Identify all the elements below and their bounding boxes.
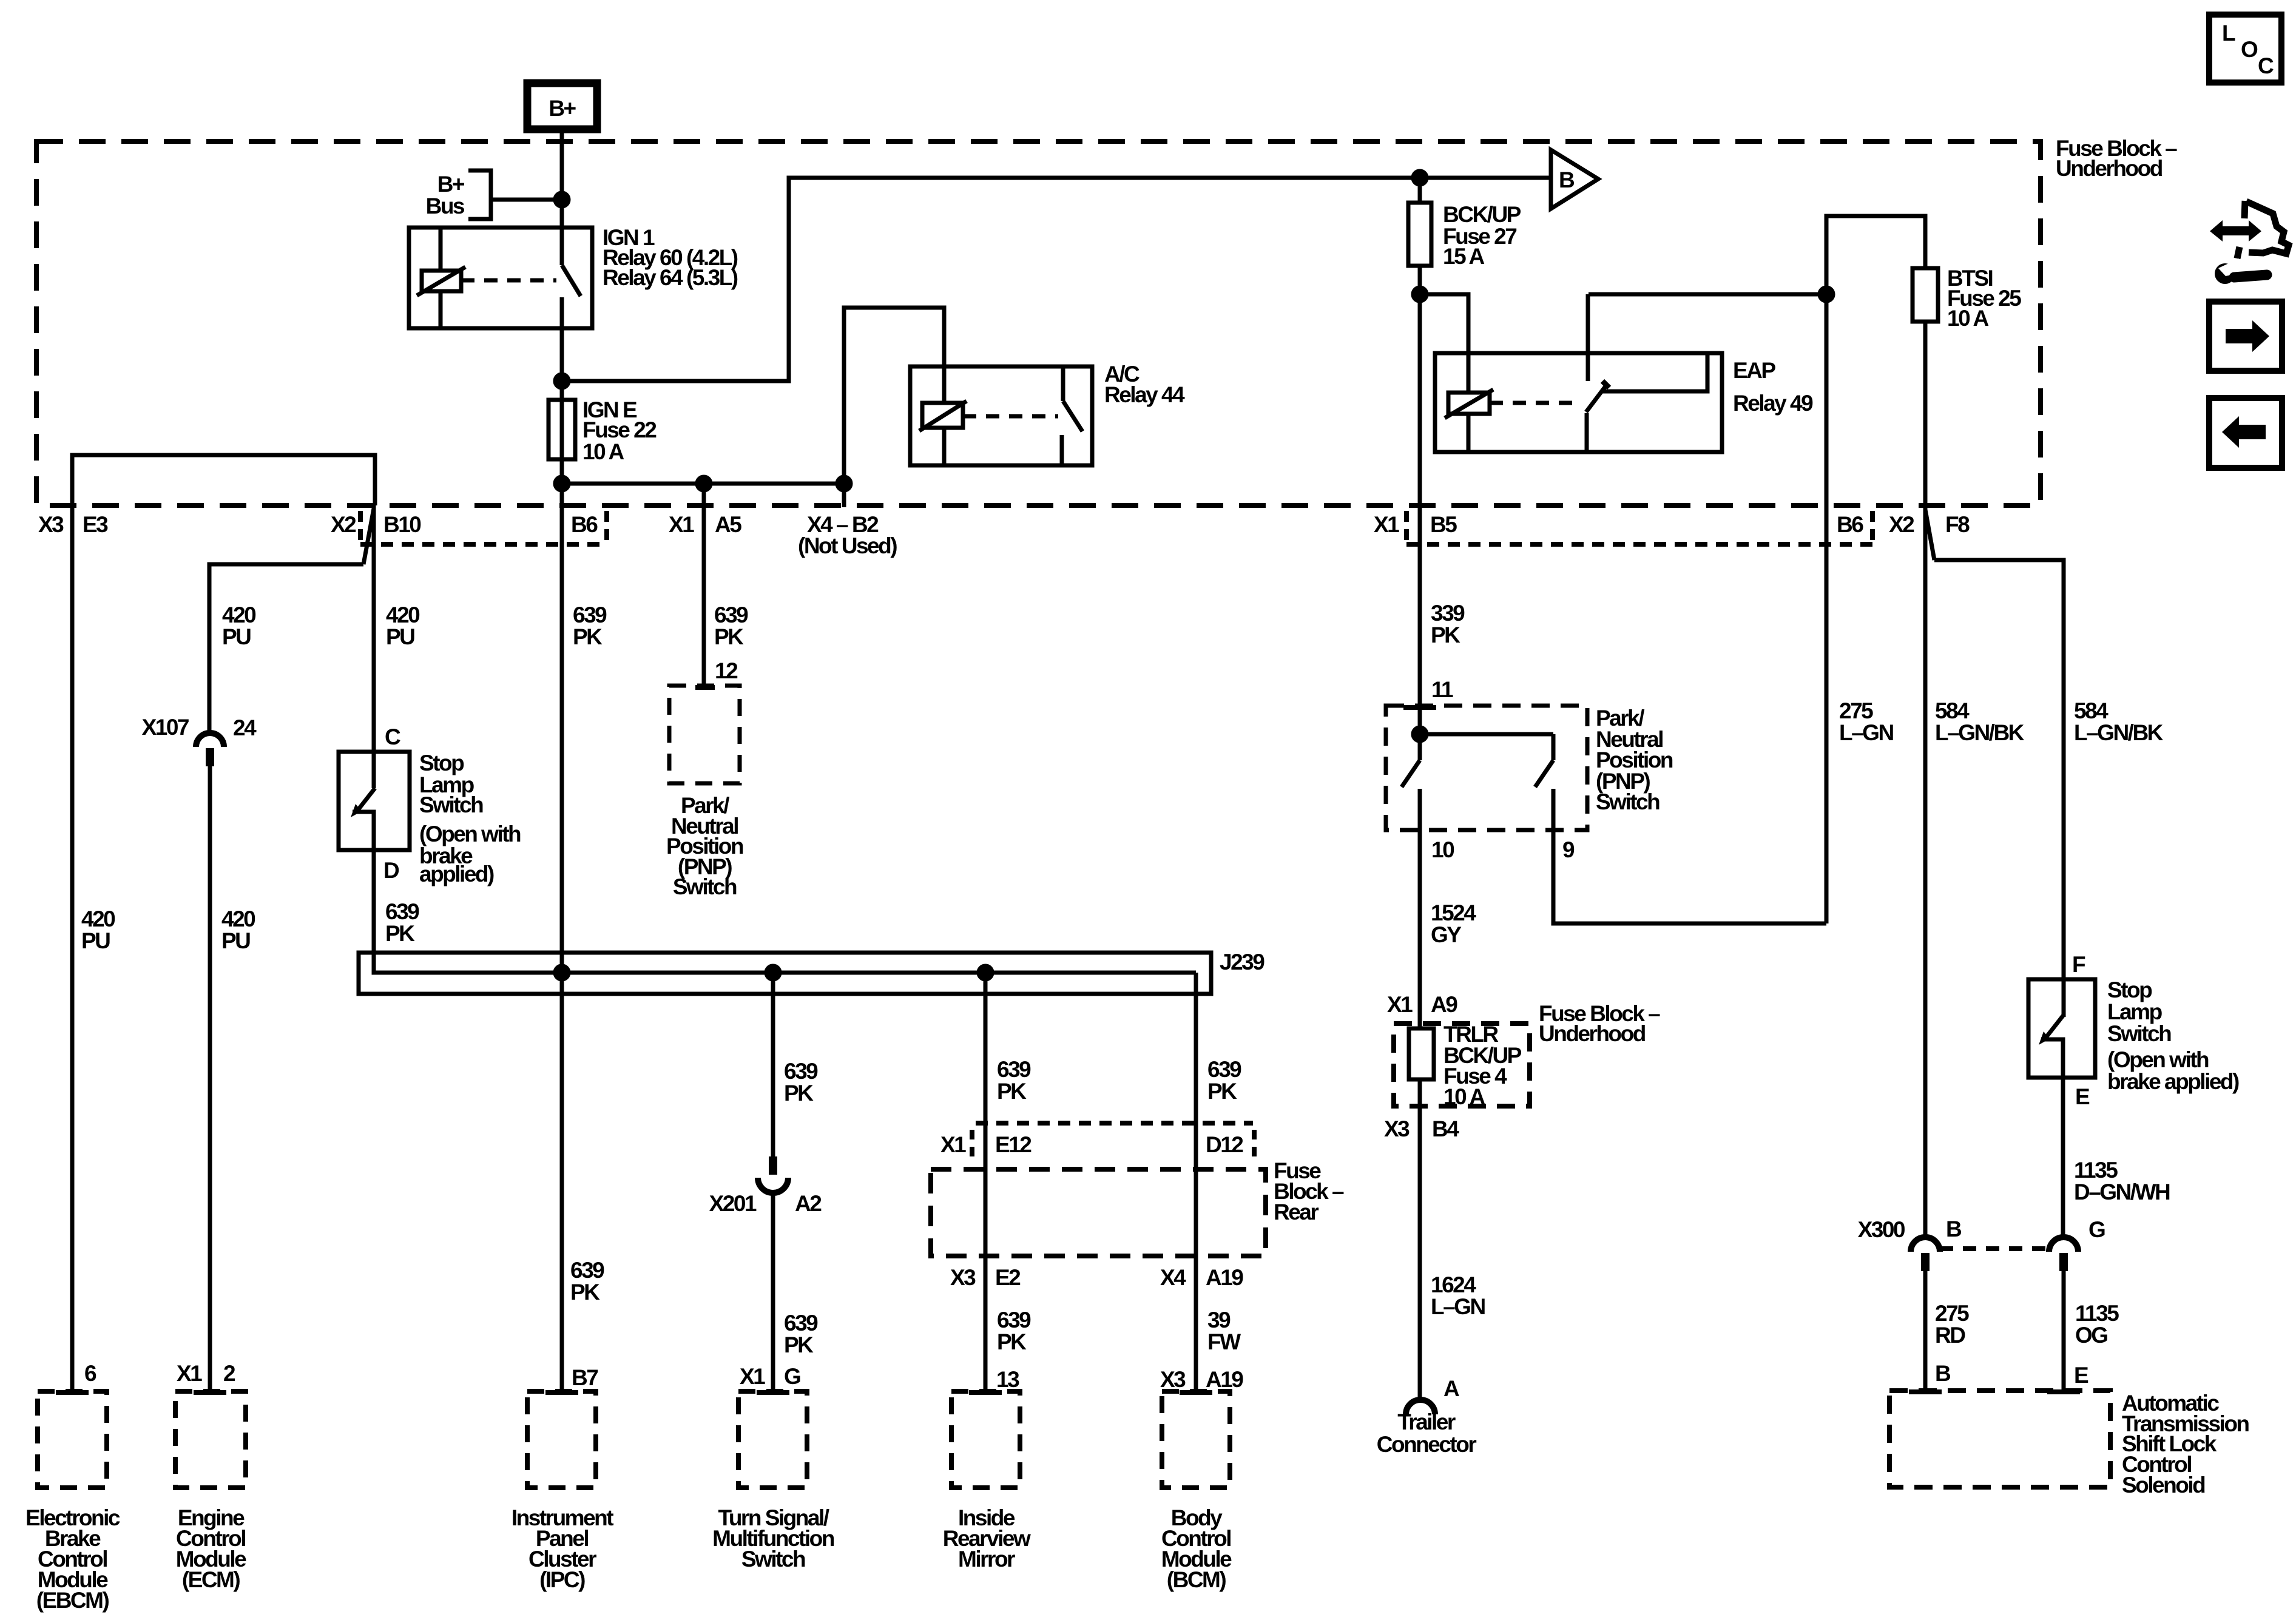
turn signal entry tick pin G xyxy=(757,1390,789,1395)
svg-text:PK: PK xyxy=(570,1280,600,1305)
svg-text:1624: 1624 xyxy=(1431,1272,1476,1297)
junction below fuse 27 xyxy=(1413,288,1427,301)
wire 1135 OG to solenoid E xyxy=(2062,1271,2066,1392)
svg-text:A5: A5 xyxy=(715,512,741,537)
connector X300 right terminal xyxy=(2059,1253,2068,1271)
connector strip left X2/B10-B6 dashes xyxy=(358,511,363,544)
svg-text:15 A: 15 A xyxy=(1443,244,1485,269)
svg-text:L–GN: L–GN xyxy=(1839,720,1893,745)
relay EAP inner contact L wire xyxy=(1602,353,1707,391)
svg-text:10 A: 10 A xyxy=(1443,1084,1485,1109)
wire to backup lamp feed (to fuse 27) xyxy=(562,178,1420,381)
splice pack J239 box xyxy=(359,953,1211,994)
relay A/C switch lower stub xyxy=(1060,435,1064,465)
wire to off-page arrow B xyxy=(1420,176,1549,180)
svg-text:X300: X300 xyxy=(1858,1217,1905,1242)
svg-text:(Open with: (Open with xyxy=(419,822,521,846)
svg-text:9: 9 xyxy=(1562,837,1575,862)
forward reference arrow box xyxy=(2209,302,2282,371)
stop lamp switch left contact L xyxy=(353,812,374,850)
svg-text:13: 13 xyxy=(996,1367,1019,1392)
svg-text:639: 639 xyxy=(784,1311,818,1335)
svg-text:X1: X1 xyxy=(1387,992,1413,1017)
ECM entry tick pin 2 xyxy=(194,1390,226,1395)
wire B5 down to PNP 11 xyxy=(1418,505,1422,734)
svg-text:(Open with: (Open with xyxy=(2107,1047,2209,1072)
svg-text:F8: F8 xyxy=(1945,512,1970,537)
relay A/C dashed link xyxy=(963,414,1058,419)
svg-text:A9: A9 xyxy=(1431,992,1457,1017)
svg-text:A2: A2 xyxy=(795,1191,822,1216)
relay IGN1 coil lower lead xyxy=(439,291,443,328)
svg-text:L–GN/BK: L–GN/BK xyxy=(1935,720,2025,745)
wire EAP switch feed horizontal xyxy=(1589,292,1826,297)
PNP left leg to pin 10 xyxy=(1418,789,1422,830)
svg-text:Switch: Switch xyxy=(1596,789,1660,814)
svg-text:PK: PK xyxy=(784,1081,814,1106)
svg-text:Switch: Switch xyxy=(673,874,737,899)
wire fuse27 bottom lead xyxy=(1418,266,1422,505)
svg-text:X1: X1 xyxy=(940,1132,966,1157)
wire 275 RD to solenoid B xyxy=(1923,1271,1928,1392)
svg-text:X4: X4 xyxy=(1160,1265,1186,1290)
svg-text:Stop: Stop xyxy=(419,751,464,775)
junction at fuse 27 xyxy=(1413,171,1427,184)
svg-text:X2: X2 xyxy=(331,512,356,537)
solenoid entry tick B xyxy=(1909,1389,1942,1394)
ECM dashed box xyxy=(175,1391,246,1488)
EBCM dashed box xyxy=(38,1391,107,1488)
connector trailer arc xyxy=(1406,1400,1435,1414)
svg-text:EAP: EAP xyxy=(1733,358,1775,383)
svg-text:639: 639 xyxy=(570,1258,604,1283)
svg-text:PK: PK xyxy=(1431,623,1460,647)
junction below IGN E fuse xyxy=(555,477,569,490)
relay EAP coil feed xyxy=(1467,353,1471,393)
wire fuse27 top lead xyxy=(1418,178,1422,203)
wire 420 PU to stop lamp switch C xyxy=(372,505,376,788)
wire B10 connector diagonal xyxy=(363,508,374,564)
svg-text:L–GN/BK: L–GN/BK xyxy=(2074,720,2164,745)
wire BTSI fuse to F8 xyxy=(1923,322,1928,505)
connector X300 left arc xyxy=(1911,1237,1940,1252)
svg-text:E3: E3 xyxy=(83,512,108,537)
svg-text:Connector: Connector xyxy=(1377,1432,1477,1457)
svg-text:X3: X3 xyxy=(950,1265,976,1290)
svg-text:X3: X3 xyxy=(38,512,64,537)
svg-text:339: 339 xyxy=(1431,601,1465,626)
svg-text:275: 275 xyxy=(1839,698,1873,723)
BCM entry tick pin A19 xyxy=(1180,1390,1212,1395)
relay EAP switch arm xyxy=(1586,385,1607,412)
connector X201 terminal xyxy=(769,1156,777,1175)
svg-text:Switch: Switch xyxy=(2107,1021,2171,1046)
svg-text:A19: A19 xyxy=(1206,1367,1243,1392)
svg-text:PK: PK xyxy=(1207,1079,1237,1104)
relay EAP coil xyxy=(1448,393,1490,414)
svg-text:X1: X1 xyxy=(669,512,694,537)
svg-text:E12: E12 xyxy=(995,1132,1032,1157)
relay EAP dashed link xyxy=(1490,401,1578,405)
junction A/C branch xyxy=(837,477,851,490)
PNP single entry tick pin 12 xyxy=(695,685,715,690)
wire X4-B2 stub xyxy=(842,484,846,507)
wire IGN1 switch to IGN E fuse xyxy=(560,297,564,505)
svg-text:11: 11 xyxy=(1431,677,1453,702)
relay EAP coil lower lead xyxy=(1467,414,1471,452)
svg-text:A: A xyxy=(1443,1376,1459,1401)
svg-text:639: 639 xyxy=(997,1057,1031,1082)
relay IGN1 box (Relay 60/64) xyxy=(409,228,592,328)
svg-text:Relay 44: Relay 44 xyxy=(1104,382,1185,407)
wire F8 to right stop lamp switch xyxy=(1934,560,2064,1017)
svg-text:(IPC): (IPC) xyxy=(539,1567,585,1592)
svg-text:Rear: Rear xyxy=(1274,1200,1319,1224)
svg-text:Lamp: Lamp xyxy=(2107,999,2163,1024)
stop lamp switch left box xyxy=(339,752,410,850)
svg-text:F: F xyxy=(2072,952,2085,977)
svg-text:(ECM): (ECM) xyxy=(182,1567,240,1592)
mirror entry tick pin 13 xyxy=(969,1390,1002,1395)
turn signal switch dashed box xyxy=(738,1391,807,1488)
svg-text:Stop: Stop xyxy=(2107,977,2152,1002)
PNP left switch arm xyxy=(1402,760,1420,787)
connector strip right B5-B6 dashes xyxy=(1404,511,1409,544)
wire 584 L-GN/BK down to X300 B xyxy=(1923,505,1928,1238)
relay A/C coil lower lead xyxy=(942,428,947,465)
svg-text:G: G xyxy=(2088,1217,2105,1242)
junction J239 at IPC wire xyxy=(555,966,569,979)
relay A/C switch arm xyxy=(1063,401,1082,431)
svg-text:brake applied): brake applied) xyxy=(2107,1069,2239,1094)
svg-text:PK: PK xyxy=(714,624,744,649)
stop lamp switch right box xyxy=(2028,979,2095,1078)
svg-text:PK: PK xyxy=(784,1332,814,1357)
svg-text:BCK/UP: BCK/UP xyxy=(1443,202,1521,227)
svg-text:G: G xyxy=(784,1364,800,1389)
svg-text:OG: OG xyxy=(2075,1323,2107,1348)
svg-text:PU: PU xyxy=(386,624,414,649)
service tool icon double arrow xyxy=(2210,220,2261,241)
relay A/C 44 box xyxy=(910,366,1092,465)
svg-text:Trailer: Trailer xyxy=(1397,1409,1456,1434)
junction BTSI branch xyxy=(1820,288,1833,301)
svg-text:639: 639 xyxy=(997,1308,1031,1332)
svg-text:12: 12 xyxy=(715,658,738,683)
stop lamp switch left arrowhead xyxy=(351,804,362,817)
svg-text:applied): applied) xyxy=(419,862,494,886)
fuse block underhood TRLR dashed box xyxy=(1394,1024,1530,1106)
svg-text:PU: PU xyxy=(81,928,110,953)
B+ power symbol box xyxy=(527,83,597,129)
PNP right leg to pin 9 xyxy=(1551,789,1556,830)
fuse block rear dashed box xyxy=(931,1169,1266,1256)
wire J239 to inside rearview mirror xyxy=(984,973,988,1393)
svg-text:(BCM): (BCM) xyxy=(1167,1567,1226,1592)
svg-text:C: C xyxy=(385,724,400,749)
junction A5 branch xyxy=(697,477,711,490)
wire pin 9 to 275 L-GN riser xyxy=(1553,830,1826,923)
svg-text:39: 39 xyxy=(1207,1308,1231,1332)
EBCM entry tick pin 6 xyxy=(56,1390,89,1395)
svg-text:B6: B6 xyxy=(1837,512,1863,537)
relay IGN1 switch arm xyxy=(562,265,581,296)
svg-text:Relay 49: Relay 49 xyxy=(1733,391,1813,416)
relay IGN1 coil feed xyxy=(439,228,443,271)
svg-text:Relay 64 (5.3L): Relay 64 (5.3L) xyxy=(603,265,738,290)
svg-text:A19: A19 xyxy=(1206,1265,1243,1290)
svg-text:420: 420 xyxy=(81,906,115,931)
svg-text:B7: B7 xyxy=(572,1365,598,1390)
svg-text:639: 639 xyxy=(573,603,607,627)
svg-text:B: B xyxy=(1946,1217,1962,1241)
PNP right switch arm xyxy=(1535,760,1553,787)
svg-text:(EBCM): (EBCM) xyxy=(36,1588,109,1613)
connector X107 arc xyxy=(196,733,224,747)
svg-text:PK: PK xyxy=(385,921,415,946)
wire B6 to IPC xyxy=(560,505,564,1393)
svg-text:O: O xyxy=(2241,37,2258,62)
svg-text:B+: B+ xyxy=(549,96,576,121)
svg-text:2: 2 xyxy=(223,1361,235,1386)
svg-text:639: 639 xyxy=(714,603,748,627)
svg-text:E: E xyxy=(2075,1084,2090,1109)
wire F8 diagonal xyxy=(1925,510,1934,560)
svg-text:10: 10 xyxy=(1431,837,1454,862)
stop lamp switch right arrowhead xyxy=(2039,1031,2050,1045)
PNP internal bus xyxy=(1420,732,1553,737)
rearview mirror dashed box xyxy=(951,1391,1020,1488)
svg-text:PU: PU xyxy=(222,624,251,649)
B+ Bus bracket xyxy=(468,170,491,219)
wire E down to X300 G xyxy=(2061,1078,2065,1238)
connector X300 right arc xyxy=(2049,1237,2078,1252)
svg-text:D: D xyxy=(383,858,399,883)
connector X300 left terminal xyxy=(1921,1253,1930,1271)
svg-text:24: 24 xyxy=(233,715,257,740)
svg-text:E: E xyxy=(2074,1363,2088,1388)
svg-text:Bus: Bus xyxy=(426,194,465,218)
BCM dashed box xyxy=(1162,1391,1230,1488)
stop lamp switch left arm xyxy=(357,788,375,811)
svg-text:PK: PK xyxy=(997,1329,1027,1354)
service tool icon profile outline xyxy=(2244,201,2245,218)
svg-text:Underhood: Underhood xyxy=(2056,156,2163,181)
svg-text:639: 639 xyxy=(784,1059,818,1084)
svg-text:6: 6 xyxy=(84,1361,96,1386)
wire B+ Bus to main xyxy=(491,198,562,202)
svg-text:E2: E2 xyxy=(995,1265,1021,1290)
junction B+ Bus xyxy=(555,193,569,206)
svg-text:X1: X1 xyxy=(177,1361,202,1386)
PNP right switch upper stub xyxy=(1551,734,1556,760)
svg-text:L: L xyxy=(2222,21,2235,46)
svg-text:X107: X107 xyxy=(142,715,189,740)
connector X300 dashed link xyxy=(1940,1246,2050,1251)
svg-text:X1: X1 xyxy=(740,1364,765,1389)
svg-text:420: 420 xyxy=(222,603,256,627)
svg-text:(Not Used): (Not Used) xyxy=(798,533,897,558)
svg-text:584: 584 xyxy=(2074,698,2109,723)
wire B6 down (275 L-GN) xyxy=(1825,294,1829,923)
IPC entry tick pin B7 xyxy=(545,1390,578,1395)
junction relay output xyxy=(555,374,569,388)
backward reference arrow box xyxy=(2209,398,2282,468)
wire pin 10 down to TRLR fuse xyxy=(1418,830,1422,1028)
svg-text:GY: GY xyxy=(1431,922,1462,947)
relay EAP switch stub xyxy=(1586,353,1590,381)
wire EBCM-stoplamp link inside fuse block xyxy=(72,455,375,505)
svg-text:639: 639 xyxy=(385,899,419,924)
svg-text:275: 275 xyxy=(1935,1301,1969,1326)
wire J239 to fuse block rear D12 xyxy=(1194,973,1198,1393)
service tool icon wrench xyxy=(2215,263,2235,284)
stop lamp switch right contact L xyxy=(2041,1039,2063,1078)
svg-text:639: 639 xyxy=(1207,1057,1241,1082)
relay IGN1 dashed link xyxy=(461,279,556,283)
fuse BTSI Fuse 25 xyxy=(1913,268,1938,322)
wire B+ feed vertical (net B+) xyxy=(560,129,564,265)
svg-text:B4: B4 xyxy=(1432,1116,1459,1141)
wire EAP switch vertical xyxy=(1586,294,1590,353)
svg-text:Fuse 22: Fuse 22 xyxy=(582,417,657,442)
fuse block rear connector dashes X1 xyxy=(970,1130,974,1162)
LOC legend box xyxy=(2209,15,2281,83)
fuse block rear connector dashes D12 xyxy=(1252,1130,1257,1162)
junction J239 at mirror wire xyxy=(979,966,992,979)
svg-text:Mirror: Mirror xyxy=(958,1547,1015,1571)
junction PNP pin 11 xyxy=(1413,727,1427,741)
wire to A/C relay xyxy=(844,308,944,484)
shift lock solenoid dashed box xyxy=(1889,1391,2110,1487)
relay A/C coil feed xyxy=(942,366,947,403)
svg-text:PK: PK xyxy=(997,1079,1027,1104)
svg-text:10 A: 10 A xyxy=(582,439,624,464)
connector X201 arc xyxy=(758,1178,788,1193)
relay A/C coil xyxy=(922,403,963,428)
svg-text:Underhood: Underhood xyxy=(1539,1021,1646,1046)
svg-text:RD: RD xyxy=(1935,1323,1965,1348)
svg-text:1135: 1135 xyxy=(2074,1158,2118,1183)
svg-text:X2: X2 xyxy=(1889,512,1914,537)
svg-text:FW: FW xyxy=(1207,1329,1241,1354)
solenoid entry tick E xyxy=(2047,1389,2080,1394)
IPC dashed box xyxy=(527,1391,596,1488)
fuse BCK/UP Fuse 27 xyxy=(1408,203,1431,266)
fuse block rear dotted connector line xyxy=(976,1121,1253,1126)
junction J239 at X201 wire xyxy=(766,966,780,979)
svg-text:Switch: Switch xyxy=(419,792,483,817)
wire X201 to turn signal switch xyxy=(771,1193,775,1393)
svg-text:PU: PU xyxy=(221,928,250,953)
svg-text:C: C xyxy=(2258,53,2274,78)
svg-text:L–GN: L–GN xyxy=(1431,1294,1485,1319)
wire A5 branch down to PNP switch 12 xyxy=(702,484,706,687)
svg-text:584: 584 xyxy=(1935,698,1970,723)
svg-text:10 A: 10 A xyxy=(1947,306,1989,331)
svg-text:420: 420 xyxy=(386,603,420,627)
svg-text:X3: X3 xyxy=(1160,1367,1186,1392)
svg-text:B5: B5 xyxy=(1430,512,1457,537)
wire EAP coil branch xyxy=(1420,294,1468,353)
wire fuse22 output bus xyxy=(562,482,844,486)
connector X107 terminal xyxy=(206,748,214,766)
svg-text:Switch: Switch xyxy=(741,1547,805,1571)
svg-text:B+: B+ xyxy=(437,172,465,197)
wire X107 to ECM xyxy=(208,766,212,1393)
svg-text:PK: PK xyxy=(573,624,603,649)
relay A/C switch upper stub xyxy=(1061,366,1065,401)
svg-text:1135: 1135 xyxy=(2075,1301,2119,1326)
PNP switch dashed box xyxy=(1386,706,1587,830)
svg-text:X3: X3 xyxy=(1384,1116,1410,1141)
wire fuse 4 to trailer connector xyxy=(1418,1079,1422,1399)
wire D down to J239 xyxy=(374,850,1196,973)
svg-text:1524: 1524 xyxy=(1431,900,1476,925)
svg-text:B: B xyxy=(1559,167,1575,192)
wire E3 down to EBCM xyxy=(70,505,75,1393)
svg-text:B6: B6 xyxy=(571,512,598,537)
PNP left box entry tick xyxy=(1403,705,1436,710)
svg-text:B10: B10 xyxy=(383,512,421,537)
PNP left switch upper stub xyxy=(1418,734,1422,760)
svg-text:D12: D12 xyxy=(1206,1132,1243,1157)
fuse block underhood dashed box xyxy=(36,141,2041,505)
svg-text:X201: X201 xyxy=(709,1191,757,1216)
svg-text:B: B xyxy=(1935,1361,1951,1386)
wire to BTSI fuse xyxy=(1826,216,1925,294)
fuse TRLR BCK/UP Fuse 4 xyxy=(1409,1028,1434,1079)
connector strip left dotted bottom xyxy=(360,542,607,547)
wire J239 to X201 xyxy=(771,973,775,1158)
svg-text:J239: J239 xyxy=(1220,950,1264,974)
svg-text:D–GN/WH: D–GN/WH xyxy=(2074,1180,2170,1204)
stop lamp switch right arm xyxy=(2045,1016,2063,1038)
PNP switch single dashed box xyxy=(669,686,740,783)
connector strip right dotted bottom xyxy=(1406,542,1872,547)
off-page connector arrow B xyxy=(1551,150,1598,209)
svg-text:420: 420 xyxy=(221,906,255,931)
svg-text:Solenoid: Solenoid xyxy=(2122,1473,2205,1497)
fuse IGN E Fuse 22 xyxy=(549,400,575,459)
svg-text:X1: X1 xyxy=(1374,512,1399,537)
relay IGN1 coil xyxy=(422,271,461,291)
relay EAP 49 box xyxy=(1435,353,1722,452)
wire branch to X107 xyxy=(209,564,363,733)
